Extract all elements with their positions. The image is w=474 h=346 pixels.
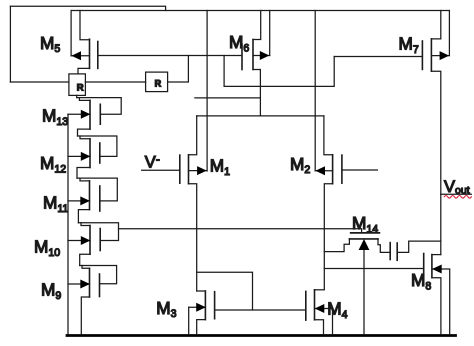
svg-text:M2: M2 — [290, 154, 310, 176]
transistor M12 — [68, 136, 117, 178]
svg-text:M8: M8 — [411, 270, 431, 292]
svg-text:M3: M3 — [156, 298, 176, 320]
transistor M6 — [242, 11, 270, 116]
wire M3-M4 gate line — [215, 309, 306, 311]
wire VDD rail B — [71, 10, 449, 12]
transistor M13 — [68, 98, 121, 136]
svg-text:M4: M4 — [327, 299, 347, 321]
wire M8 gate line — [324, 268, 423, 270]
transistor M5 — [71, 11, 98, 74]
svg-text:R: R — [77, 83, 84, 94]
wire gate line M5-M6 — [98, 55, 242, 57]
node M2 bulk to VDD — [314, 11, 316, 171]
svg-text:Vout: Vout — [444, 178, 470, 196]
wire left border — [9, 6, 11, 82]
node bulk bus M1 — [206, 11, 208, 172]
wire R1 to R2 — [85, 81, 145, 83]
transistor M2 — [315, 116, 377, 290]
transistor M4 — [306, 290, 333, 335]
svg-text:M6: M6 — [229, 32, 249, 54]
transistor M3 — [189, 291, 215, 334]
svg-text:M11: M11 — [43, 193, 68, 215]
wire bias line M10 to M14 gate — [119, 229, 362, 233]
wire R2 riser to gate line — [168, 56, 189, 83]
transistor M8 — [424, 254, 450, 335]
wire Vout stub — [441, 193, 472, 195]
wire R1 to M13 rail — [76, 95, 78, 97]
capacitor C — [390, 241, 441, 260]
resistor R2 — [146, 72, 168, 92]
wire stub under M6 — [195, 97, 261, 99]
wire M3 drain to gates link — [197, 272, 253, 310]
wire diff pair drain link — [197, 115, 324, 117]
transistor M9 — [68, 266, 117, 335]
svg-text:M12: M12 — [40, 153, 66, 175]
wire V- input — [142, 169, 180, 171]
resistor R1 — [69, 74, 86, 96]
wire M7 gate line — [334, 56, 422, 58]
svg-text:M13: M13 — [42, 106, 68, 128]
svg-text:M9: M9 — [41, 280, 61, 302]
svg-text:R: R — [155, 79, 162, 89]
transistor M11 — [68, 178, 117, 223]
svg-text:M7: M7 — [399, 34, 419, 56]
transistor M7 — [422, 11, 449, 255]
svg-text:M5: M5 — [40, 33, 60, 55]
wire top rail A — [10, 6, 165, 10]
transistor M14 — [324, 233, 390, 334]
node bias chain bulk rail — [67, 114, 69, 335]
squiggly spell underline — [444, 196, 471, 199]
wire M6 gate-drain link — [224, 56, 334, 87]
wire left to R1 — [10, 81, 69, 83]
transistor M10 — [68, 223, 119, 266]
svg-text:M14: M14 — [352, 213, 378, 235]
svg-text:M1: M1 — [210, 156, 230, 178]
transistor M1 — [180, 116, 207, 291]
svg-text:M10: M10 — [34, 237, 60, 259]
svg-text:V-: V- — [145, 152, 160, 172]
ground rail (bottom) — [67, 334, 456, 337]
